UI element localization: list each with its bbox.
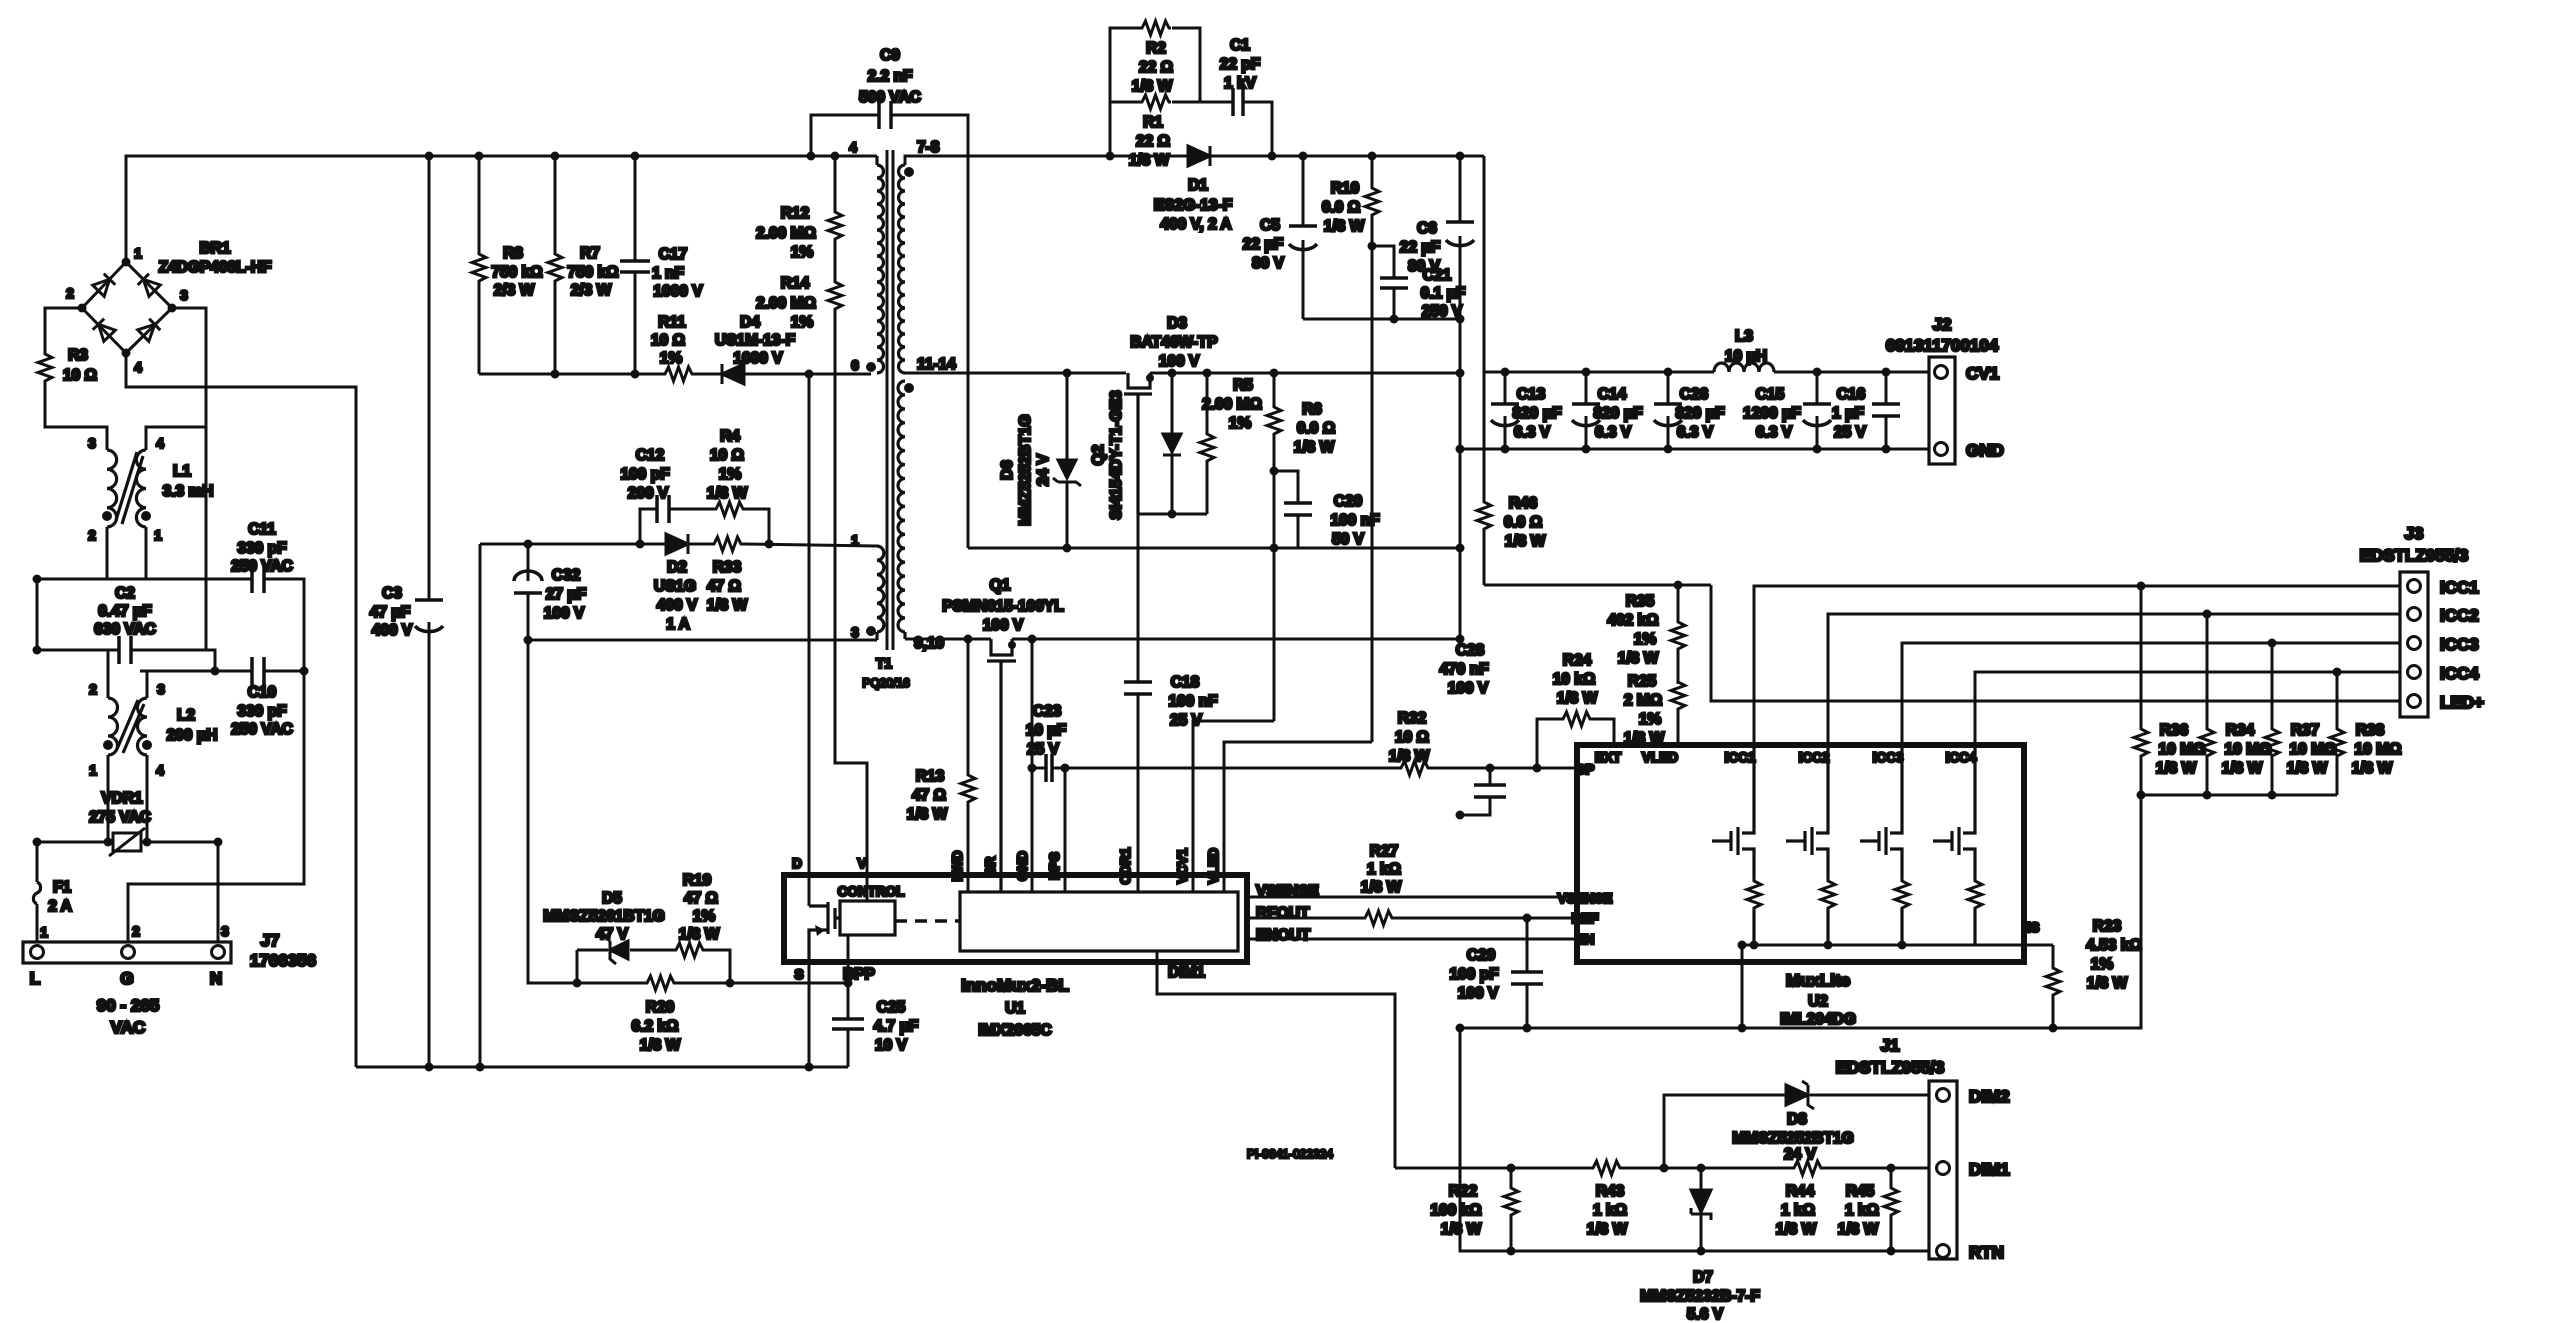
- wire L2 pin1 down to VDR row: [107, 755, 110, 842]
- svg-text:D4: D4: [740, 314, 760, 331]
- transistor U1 internal FET: [809, 902, 840, 962]
- svg-text:D6: D6: [999, 460, 1016, 480]
- svg-text:100 V: 100 V: [1458, 985, 1499, 1002]
- wire ICC3: [1902, 643, 2400, 745]
- wire C2 row: [37, 649, 215, 652]
- svg-text:1%: 1%: [1639, 711, 1662, 728]
- svg-text:4.7 μF: 4.7 μF: [874, 1018, 919, 1035]
- resistor R45 column: [1890, 1168, 1893, 1251]
- svg-text:DIM1: DIM1: [1969, 1160, 2010, 1179]
- svg-text:G: G: [120, 969, 133, 988]
- svg-text:C32: C32: [552, 567, 580, 584]
- transformer T1: [849, 139, 956, 690]
- svg-text:100 V: 100 V: [1448, 680, 1489, 697]
- wire R8/R7/C17 bottom rail to R11: [479, 373, 663, 376]
- svg-text:10 Ω: 10 Ω: [63, 367, 97, 384]
- resistor R5 column: [1206, 373, 1209, 514]
- svg-text:IMX2065C: IMX2065C: [978, 1022, 1051, 1039]
- wire D4 to T1 pin6: [744, 373, 871, 376]
- svg-text:R24: R24: [1563, 652, 1592, 669]
- svg-text:C13: C13: [1517, 386, 1546, 403]
- svg-text:R44: R44: [1786, 1183, 1815, 1200]
- wire F1 to J7 pin1: [36, 904, 39, 942]
- svg-text:1/8 W: 1/8 W: [1587, 1221, 1628, 1238]
- svg-text:47 V: 47 V: [596, 926, 629, 943]
- svg-text:1/8 W: 1/8 W: [1129, 152, 1170, 169]
- wire L1 pin1 down to row A: [145, 527, 148, 579]
- svg-text:6.3 V: 6.3 V: [1595, 424, 1632, 441]
- wire L2 pin2 stub: [107, 650, 110, 698]
- svg-text:691311700104: 691311700104: [1886, 336, 1999, 355]
- svg-text:1%: 1%: [719, 466, 742, 483]
- capacitor C11: [231, 521, 293, 593]
- svg-text:3: 3: [157, 682, 165, 697]
- svg-text:IML204DG: IML204DG: [1780, 1011, 1856, 1028]
- wire Q2/D3/R5 source line: [1138, 513, 1207, 516]
- svg-text:10 Ω: 10 Ω: [710, 447, 744, 464]
- svg-text:2.00 MΩ: 2.00 MΩ: [756, 225, 816, 242]
- svg-text:7-8: 7-8: [917, 139, 940, 156]
- svg-text:400 V: 400 V: [657, 597, 698, 614]
- svg-text:C14: C14: [1598, 386, 1627, 403]
- svg-text:C2: C2: [115, 585, 135, 602]
- svg-text:1/8 W: 1/8 W: [679, 926, 720, 943]
- svg-text:630 VAC: 630 VAC: [94, 621, 156, 638]
- svg-text:U1: U1: [1005, 1000, 1025, 1017]
- wire row A (after-choke line) with C11: [37, 579, 304, 671]
- capacitor C16: [1885, 372, 1888, 449]
- svg-text:6: 6: [851, 358, 859, 373]
- svg-text:1 kΩ: 1 kΩ: [1367, 861, 1401, 878]
- resistor R12 column: [834, 156, 837, 280]
- wire GND column lower: [1460, 1028, 1929, 1251]
- svg-text:4: 4: [134, 360, 142, 375]
- wire G line: [128, 671, 304, 942]
- svg-text:R14: R14: [781, 275, 810, 292]
- svg-text:BPS: BPS: [1047, 852, 1062, 880]
- svg-text:EXT: EXT: [1595, 750, 1622, 765]
- resistor R2: [1132, 21, 1173, 95]
- IC U1 inner block: [960, 892, 1238, 951]
- svg-text:MuxLite: MuxLite: [1786, 971, 1850, 990]
- svg-text:1 A: 1 A: [666, 616, 690, 633]
- svg-text:ES2G-13-F: ES2G-13-F: [1154, 197, 1232, 214]
- svg-text:FWD: FWD: [950, 850, 965, 881]
- svg-text:1 nF: 1 nF: [652, 265, 684, 282]
- svg-text:1 μF: 1 μF: [1832, 405, 1864, 422]
- svg-text:2 MΩ: 2 MΩ: [1624, 692, 1662, 709]
- svg-text:R10: R10: [1331, 180, 1359, 197]
- svg-text:10 Ω: 10 Ω: [1395, 729, 1429, 746]
- svg-text:1/8 W: 1/8 W: [707, 485, 748, 502]
- wire R2/R1 loop: [1110, 28, 1272, 156]
- svg-text:2.2 nF: 2.2 nF: [868, 68, 913, 85]
- svg-text:D8: D8: [1787, 1111, 1807, 1128]
- wire bank bottom rail: [1460, 448, 1929, 451]
- wire ICC1: [1754, 586, 2400, 745]
- wire C12/R4 row: [640, 509, 769, 544]
- svg-text:C3: C3: [382, 585, 402, 602]
- svg-text:1 kΩ: 1 kΩ: [1845, 1202, 1879, 1219]
- svg-text:N: N: [210, 969, 222, 988]
- svg-text:BAT46W-TP: BAT46W-TP: [1130, 334, 1217, 351]
- capacitor C17 column: [634, 156, 637, 374]
- svg-text:25 V: 25 V: [1834, 424, 1867, 441]
- svg-text:CV1: CV1: [1966, 364, 1999, 383]
- svg-text:LED+: LED+: [2440, 693, 2484, 712]
- svg-text:6.2 kΩ: 6.2 kΩ: [632, 1018, 679, 1035]
- wire CV1 bank top rail: [1484, 371, 1929, 374]
- wire GND column: [1031, 639, 1034, 892]
- resistor R13 column FWD: [967, 639, 970, 892]
- svg-text:ICC3: ICC3: [1873, 750, 1904, 765]
- svg-text:2.00 MΩ: 2.00 MΩ: [1202, 396, 1262, 413]
- svg-text:25 V: 25 V: [1027, 741, 1060, 758]
- svg-text:1/8 W: 1/8 W: [2352, 760, 2393, 777]
- svg-text:D5: D5: [602, 890, 622, 907]
- T1 secondary winding 7-8 / 11-14: [899, 165, 906, 373]
- svg-text:R38: R38: [2356, 722, 2385, 739]
- resistor R11: [651, 314, 694, 381]
- svg-text:100 pF: 100 pF: [1449, 966, 1498, 983]
- svg-text:C6: C6: [1417, 220, 1437, 237]
- svg-text:1/8 W: 1/8 W: [907, 806, 948, 823]
- capacitor C3: [370, 585, 443, 639]
- node secondary rail dots: [1106, 152, 1465, 161]
- svg-text:4: 4: [156, 763, 164, 778]
- wire VLED net from R46: [1484, 585, 2400, 745]
- wire ICC2: [1828, 614, 2400, 745]
- svg-text:24 V: 24 V: [1784, 1146, 1817, 1163]
- wire left col row A to C2 row: [36, 579, 39, 650]
- svg-text:820 μF: 820 μF: [1512, 405, 1561, 422]
- svg-text:VLED: VLED: [1642, 750, 1678, 765]
- resistor R35: [1607, 593, 1685, 667]
- wire ICC4: [1975, 672, 2400, 745]
- svg-text:400 V: 400 V: [372, 622, 413, 639]
- U2 internal FET ICC2: [1786, 745, 1835, 945]
- zener D8: [1732, 1081, 1853, 1163]
- svg-text:Q1: Q1: [990, 577, 1011, 594]
- wire VSENSE row: [1247, 896, 1577, 899]
- wire secondary top rail: [905, 156, 1484, 165]
- svg-text:R43: R43: [1596, 1183, 1625, 1200]
- svg-text:1/8 W: 1/8 W: [707, 597, 748, 614]
- resistor R33: [707, 537, 748, 614]
- wire VDR1 row: [37, 841, 218, 844]
- svg-text:S: S: [794, 967, 803, 982]
- svg-text:D3: D3: [1167, 315, 1187, 332]
- svg-text:ICC1: ICC1: [2440, 578, 2479, 597]
- svg-text:R46: R46: [1509, 495, 1538, 512]
- svg-text:MMSZ5261BT1G: MMSZ5261BT1G: [543, 908, 664, 925]
- svg-text:R3: R3: [68, 347, 88, 364]
- svg-text:R19: R19: [683, 872, 712, 889]
- wire D column into U1: [808, 374, 811, 906]
- svg-text:3: 3: [851, 625, 859, 640]
- svg-text:50 V: 50 V: [1332, 531, 1365, 548]
- svg-text:C23: C23: [1033, 703, 1062, 720]
- svg-text:R23: R23: [2093, 918, 2122, 935]
- svg-text:C10: C10: [248, 684, 276, 701]
- node C10 row dots: [33, 575, 309, 676]
- svg-text:VCV1: VCV1: [1175, 848, 1190, 884]
- capacitor C23: [1026, 703, 1067, 782]
- svg-text:1 kΩ: 1 kΩ: [1781, 1202, 1815, 1219]
- diode D2: [654, 534, 698, 633]
- svg-text:C26: C26: [1680, 386, 1709, 403]
- capacitor C10: [231, 657, 293, 738]
- wire C23/BPS row to BP: [1032, 767, 1577, 770]
- svg-text:R1: R1: [1143, 114, 1163, 131]
- resistor R7 column: [554, 156, 557, 374]
- svg-text:100 nF: 100 nF: [1168, 693, 1217, 710]
- wire L1 pin4 stub: [145, 387, 147, 427]
- svg-text:22 pF: 22 pF: [1220, 56, 1260, 73]
- svg-text:1%: 1%: [791, 314, 814, 331]
- diode D1: [1154, 146, 1232, 233]
- wire BPP pin column: [847, 935, 849, 983]
- svg-text:ICC4: ICC4: [2440, 664, 2479, 683]
- U1 CONTROL block: [838, 884, 905, 935]
- wire L2 pin4 down to VDR row: [146, 755, 149, 842]
- resistor R4: [707, 428, 748, 516]
- svg-text:ICC2: ICC2: [1799, 750, 1830, 765]
- IC U1 outer box: [784, 856, 1247, 1039]
- svg-text:10 MΩ: 10 MΩ: [2290, 741, 2337, 758]
- svg-text:500 VAC: 500 VAC: [859, 89, 921, 106]
- svg-text:R27: R27: [1370, 843, 1398, 860]
- wire U2 internal source rail / IS: [1742, 945, 2053, 1028]
- svg-text:4.53 kΩ: 4.53 kΩ: [2086, 937, 2142, 954]
- svg-text:D7: D7: [1693, 1269, 1713, 1286]
- IC U2 box: [1558, 745, 2040, 1028]
- svg-text:2: 2: [89, 682, 97, 697]
- svg-text:ICC4: ICC4: [1946, 750, 1977, 765]
- svg-text:22 Ω: 22 Ω: [1139, 59, 1173, 76]
- resistor R19: [674, 872, 720, 957]
- resistor R8 column: [478, 156, 481, 374]
- svg-text:C1: C1: [1230, 37, 1250, 54]
- svg-text:22 μF: 22 μF: [1400, 239, 1441, 256]
- svg-text:1%: 1%: [693, 908, 716, 925]
- svg-text:0.0 Ω: 0.0 Ω: [1322, 199, 1360, 216]
- wire 9,10 row / Q1 source row: [905, 638, 1460, 641]
- svg-text:1%: 1%: [1229, 415, 1252, 432]
- svg-text:1%: 1%: [1634, 631, 1657, 648]
- wire bias row D2/R33 to T1 pin1: [480, 544, 877, 546]
- svg-text:275 VAC: 275 VAC: [89, 809, 151, 826]
- capacitor C1: [1220, 37, 1260, 116]
- svg-text:ICC2: ICC2: [2440, 606, 2479, 625]
- svg-text:3: 3: [221, 924, 229, 939]
- svg-text:100 V: 100 V: [983, 617, 1024, 634]
- node VDR row dots: [33, 838, 223, 847]
- svg-text:R32: R32: [1398, 710, 1426, 727]
- svg-text:L3: L3: [1735, 328, 1753, 345]
- svg-text:Z4DGP408L-HF: Z4DGP408L-HF: [159, 259, 272, 276]
- svg-text:C17: C17: [659, 246, 687, 263]
- svg-text:10 μH: 10 μH: [1725, 348, 1767, 365]
- wire EN row: [1247, 938, 1577, 941]
- svg-text:1/8 W: 1/8 W: [1441, 1221, 1482, 1238]
- capacitor C6 column: [1459, 156, 1462, 639]
- svg-text:C9: C9: [880, 47, 900, 64]
- wire BR1-pin3 col down through C2 row to C10 row: [206, 427, 215, 671]
- svg-text:200 V: 200 V: [628, 485, 669, 502]
- svg-text:C25: C25: [877, 999, 906, 1016]
- svg-text:R2: R2: [1146, 40, 1166, 57]
- svg-text:47 Ω: 47 Ω: [707, 578, 741, 595]
- svg-text:R25: R25: [1628, 673, 1657, 690]
- svg-text:ICC3: ICC3: [2440, 635, 2479, 654]
- capacitor C13: [1504, 372, 1507, 449]
- svg-text:BP: BP: [1576, 762, 1595, 777]
- svg-text:1/8 W: 1/8 W: [2156, 760, 2197, 777]
- svg-text:R37: R37: [2291, 722, 2319, 739]
- node ICC row dots: [2137, 582, 2342, 677]
- svg-text:REF: REF: [1572, 911, 1599, 926]
- svg-text:R36: R36: [2160, 722, 2189, 739]
- svg-text:L1: L1: [173, 463, 191, 480]
- svg-text:PQ20/16: PQ20/16: [862, 676, 910, 690]
- svg-text:10 MΩ: 10 MΩ: [2159, 741, 2206, 758]
- varistor VDR1: [89, 790, 151, 856]
- resistor R1: [1129, 95, 1171, 169]
- U2 internal FET ICC1: [1712, 745, 1761, 945]
- svg-text:C5: C5: [1260, 217, 1280, 234]
- svg-text:BR1: BR1: [199, 240, 230, 257]
- svg-text:BPP: BPP: [843, 966, 875, 983]
- bridge BR1: [66, 240, 271, 375]
- wire 11-14 rail: [905, 372, 1460, 375]
- resistor R27: [1361, 843, 1402, 925]
- svg-text:4: 4: [156, 436, 164, 451]
- wire BPS column: [1064, 768, 1067, 892]
- wire R6 jog to VCV1 column: [1193, 721, 1274, 892]
- capacitor C2: [94, 585, 156, 664]
- svg-text:1/8 W: 1/8 W: [1361, 879, 1402, 896]
- svg-text:47 Ω: 47 Ω: [912, 787, 946, 804]
- svg-text:C28: C28: [1456, 642, 1485, 659]
- svg-text:1/8 W: 1/8 W: [1557, 690, 1598, 707]
- svg-text:1%: 1%: [660, 350, 683, 367]
- svg-text:1/8 W: 1/8 W: [1618, 650, 1659, 667]
- svg-text:2/3 W: 2/3 W: [571, 282, 612, 299]
- svg-text:C11: C11: [248, 521, 276, 538]
- wire BR1 pin3 down: [146, 308, 206, 450]
- svg-text:10 MΩ: 10 MΩ: [2355, 741, 2402, 758]
- resistor R24 loop to EXT: [1537, 719, 1614, 768]
- svg-text:VAC: VAC: [111, 1018, 146, 1037]
- svg-text:2 A: 2 A: [48, 898, 72, 915]
- capacitor C21 stub: [1372, 246, 1394, 319]
- svg-text:100 pF: 100 pF: [620, 466, 669, 483]
- svg-text:1/8 W: 1/8 W: [1294, 439, 1335, 456]
- wire DIM1 row: [1395, 1167, 1929, 1170]
- zener D7 column: [1700, 1168, 1703, 1251]
- T1 winding dots: [866, 167, 914, 636]
- svg-text:VDR1: VDR1: [101, 790, 143, 807]
- wire bias return to BPP row: [528, 640, 540, 983]
- svg-text:1: 1: [134, 246, 142, 261]
- wire DIM2 branch: [1664, 1095, 1929, 1168]
- svg-text:EDSTLZ955/3: EDSTLZ955/3: [2360, 546, 2469, 565]
- zener D6 column: [1066, 373, 1069, 548]
- svg-text:1000 V: 1000 V: [733, 350, 783, 367]
- svg-text:1/8 W: 1/8 W: [1776, 1221, 1817, 1238]
- wire bottom primary rail: [356, 1066, 848, 1069]
- svg-text:CDR1: CDR1: [1118, 847, 1133, 884]
- resistor R32: [1389, 710, 1430, 775]
- svg-text:MMZ5252BT1G: MMZ5252BT1G: [1017, 414, 1034, 525]
- svg-text:T1: T1: [876, 656, 892, 671]
- svg-text:5.6 V: 5.6 V: [1687, 1306, 1724, 1323]
- svg-text:2: 2: [66, 286, 74, 301]
- svg-text:10 Ω: 10 Ω: [651, 332, 685, 349]
- wire S column to bottom rail: [808, 962, 811, 1067]
- svg-text:ENOUT: ENOUT: [1256, 927, 1311, 944]
- wire R3 bottom to L1 pin3 row: [45, 383, 107, 450]
- svg-text:2/3 W: 2/3 W: [494, 282, 535, 299]
- svg-text:80 V: 80 V: [1408, 258, 1441, 275]
- wire DIM1 from U1: [1157, 951, 1395, 1168]
- svg-text:1: 1: [154, 528, 162, 543]
- svg-text:R7: R7: [580, 245, 600, 262]
- wire L line down to fuse: [36, 842, 39, 882]
- svg-text:10 kΩ: 10 kΩ: [1553, 671, 1596, 688]
- svg-text:DIM1: DIM1: [1168, 964, 1205, 981]
- svg-text:ICC1: ICC1: [1725, 750, 1756, 765]
- svg-text:3: 3: [88, 436, 96, 451]
- svg-text:R12: R12: [781, 205, 809, 222]
- svg-text:R11: R11: [658, 314, 686, 331]
- wire L1 pin2 down to row A: [106, 527, 109, 579]
- inductor L3: [1714, 328, 1774, 372]
- svg-text:22 μF: 22 μF: [1243, 236, 1284, 253]
- svg-text:402 kΩ: 402 kΩ: [1607, 612, 1658, 629]
- svg-text:D: D: [792, 856, 802, 871]
- svg-text:V: V: [857, 856, 866, 871]
- capacitor C20 stub: [1274, 471, 1298, 548]
- svg-text:4: 4: [849, 140, 857, 155]
- svg-text:C20: C20: [1334, 493, 1362, 510]
- wire BR1 pin2 to R3: [45, 308, 82, 352]
- svg-text:330 pF: 330 pF: [237, 540, 286, 557]
- svg-text:R35: R35: [1626, 593, 1655, 610]
- svg-text:330 pF: 330 pF: [237, 703, 286, 720]
- wire N line J7 pin3: [217, 842, 220, 942]
- svg-text:470 nF: 470 nF: [1439, 661, 1488, 678]
- T1 primary winding 4-6: [875, 156, 878, 165]
- svg-text:R6: R6: [1302, 401, 1322, 418]
- svg-text:820 μF: 820 μF: [1675, 405, 1724, 422]
- resistor R46: [1483, 372, 1486, 585]
- svg-text:R13: R13: [916, 768, 945, 785]
- node top rail dots: [425, 152, 840, 161]
- svg-text:J3: J3: [2405, 524, 2424, 543]
- svg-text:J2: J2: [1933, 315, 1952, 334]
- svg-text:1/8 W: 1/8 W: [2287, 760, 2328, 777]
- capacitor C29 column: [1526, 918, 1529, 1028]
- svg-text:750 kΩ: 750 kΩ: [567, 264, 618, 281]
- U1 top pin labels rotated: [950, 847, 1221, 884]
- svg-text:750 kΩ: 750 kΩ: [491, 264, 542, 281]
- svg-text:0.47 μF: 0.47 μF: [98, 603, 151, 620]
- wire CDR1 column with C18: [1137, 514, 1140, 892]
- svg-text:C16: C16: [1837, 386, 1866, 403]
- resistor R38 column: [2336, 672, 2339, 795]
